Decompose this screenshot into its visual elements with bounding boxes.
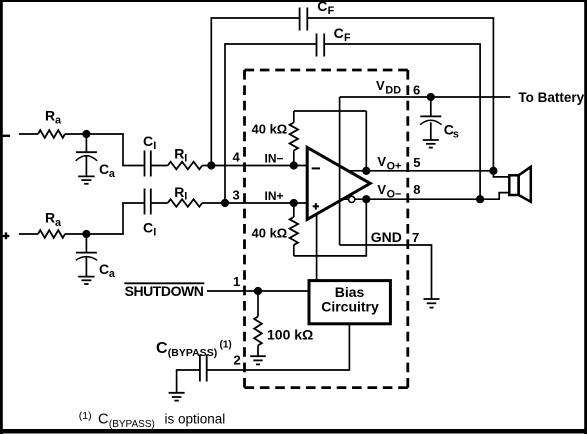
wire: CF2 feedback loop right bbox=[324, 44, 480, 199]
capacitor CF (inner) bbox=[317, 34, 325, 57]
svg-text:is optional: is optional bbox=[165, 411, 226, 426]
svg-text:100 kΩ: 100 kΩ bbox=[267, 326, 313, 342]
input terminal plus sign bbox=[3, 232, 10, 239]
svg-text:DD: DD bbox=[385, 84, 401, 96]
svg-text:40 kΩ: 40 kΩ bbox=[252, 122, 288, 137]
label VO+ bbox=[377, 154, 401, 173]
label C(BYPASS)(1) bbox=[156, 340, 232, 360]
wire: internal vertical B lower to 40k bottom bbox=[294, 199, 367, 256]
node: VO- / CF2 junction bbox=[476, 195, 484, 203]
label VO- bbox=[377, 182, 401, 201]
svg-text:40 kΩ: 40 kΩ bbox=[252, 226, 288, 241]
svg-text:a: a bbox=[55, 115, 62, 127]
svg-text:(BYPASS): (BYPASS) bbox=[109, 419, 155, 430]
resistor 100k bbox=[254, 291, 262, 356]
wire: internal VDD vertical (A) bbox=[339, 97, 341, 245]
svg-text:6: 6 bbox=[413, 83, 420, 98]
label VDD bbox=[376, 78, 401, 96]
svg-text:O−: O− bbox=[387, 189, 402, 201]
IC boundary dashed box bbox=[245, 70, 408, 388]
wire: Ri to op-amp IN- bbox=[202, 165, 306, 167]
wire: bottom input lead bbox=[19, 233, 38, 235]
svg-text:4: 4 bbox=[233, 150, 241, 165]
node: VDD / Cs junction bbox=[427, 93, 435, 101]
wire: op-amp to bias circuitry bbox=[316, 214, 318, 281]
ground (Cs) bbox=[423, 140, 439, 148]
svg-text:(1): (1) bbox=[79, 410, 92, 422]
wire: CF1 feedback loop left bbox=[211, 18, 299, 166]
wire: VDD rail to battery bbox=[340, 96, 511, 98]
node: IN+ / 40k junction bbox=[290, 199, 298, 207]
node: pin4 / CF1 junction bbox=[207, 161, 215, 169]
wire: top input lead bbox=[19, 133, 38, 135]
capacitor C(BYPASS) bbox=[200, 355, 207, 382]
svg-text:F: F bbox=[328, 5, 335, 17]
ground (bypass) bbox=[169, 393, 185, 401]
svg-text:1: 1 bbox=[233, 274, 240, 289]
input terminal minus sign bbox=[3, 135, 10, 137]
svg-text:O+: O+ bbox=[387, 161, 402, 173]
svg-text:C: C bbox=[143, 219, 153, 235]
svg-text:Circuitry: Circuitry bbox=[321, 299, 379, 315]
svg-text:C: C bbox=[98, 411, 108, 427]
speaker bbox=[509, 167, 531, 202]
wire: Ra to Ci corner (bottom) bbox=[65, 203, 145, 234]
op-amp plus marking bbox=[313, 203, 319, 210]
svg-text:Bias: Bias bbox=[335, 284, 365, 300]
svg-text:R: R bbox=[45, 107, 55, 123]
op-amp U1 bbox=[307, 147, 370, 219]
svg-text:R: R bbox=[174, 184, 184, 200]
label SHUTDOWN (overlined) bbox=[124, 283, 204, 299]
label CF (inner) bbox=[334, 25, 351, 44]
node: VO+ / CF1 junction bbox=[489, 167, 497, 175]
bias circuitry box bbox=[309, 281, 390, 324]
svg-text:C: C bbox=[143, 133, 153, 149]
wire: VO+ output bbox=[348, 170, 493, 172]
svg-text:8: 8 bbox=[413, 182, 420, 197]
svg-text:C: C bbox=[334, 25, 344, 41]
svg-text:R: R bbox=[45, 210, 55, 226]
resistor Ri (row 3) bbox=[168, 199, 203, 207]
wire: VO- output bbox=[342, 198, 480, 200]
svg-text:SHUTDOWN: SHUTDOWN bbox=[125, 283, 204, 299]
resistor Ra (top) bbox=[38, 130, 65, 138]
label Ri (row 3) bbox=[174, 184, 187, 203]
node: bottom input junction bbox=[82, 230, 90, 238]
svg-text:(BYPASS): (BYPASS) bbox=[168, 347, 217, 359]
svg-text:C: C bbox=[99, 261, 109, 277]
resistor Ra (bottom) bbox=[38, 230, 65, 238]
svg-text:s: s bbox=[453, 128, 459, 140]
label Cs bbox=[444, 121, 459, 140]
footnote: C(BYPASS) is optional bbox=[79, 410, 225, 430]
svg-text:C: C bbox=[317, 0, 327, 14]
label Ra (bottom) bbox=[45, 210, 62, 229]
svg-text:V: V bbox=[376, 78, 385, 93]
svg-text:R: R bbox=[174, 146, 184, 162]
svg-text:I: I bbox=[184, 152, 187, 164]
svg-text:a: a bbox=[109, 268, 116, 280]
capacitor Ci (row pin 4) bbox=[145, 151, 151, 177]
svg-text:V: V bbox=[377, 182, 386, 197]
wire: bypass cap to ground bbox=[177, 370, 200, 393]
capacitor Ca (top) bbox=[76, 134, 97, 176]
ground (bottom Ca) bbox=[78, 277, 94, 284]
wire: CF2 feedback loop left bbox=[225, 44, 317, 203]
label Ra (top) bbox=[45, 107, 62, 126]
node: IN- / 40k junction bbox=[290, 161, 298, 169]
wire: Ra to Ci corner (top) bbox=[65, 134, 145, 166]
label Ci (bottom) bbox=[143, 219, 156, 238]
capacitor Ci (row pin 3) bbox=[145, 189, 151, 215]
capacitor CF (outer) bbox=[300, 8, 308, 31]
ground (top Ca) bbox=[78, 176, 94, 183]
capacitor Ca (bottom) bbox=[76, 234, 97, 277]
svg-text:2: 2 bbox=[234, 353, 241, 368]
wire: VO+ to speaker bbox=[493, 171, 509, 177]
inverting output bubble bbox=[349, 196, 355, 202]
svg-text:5: 5 bbox=[413, 155, 420, 170]
label Ri (row 4) bbox=[174, 146, 187, 165]
wire: Ri to op-amp IN+ bbox=[202, 202, 306, 204]
resistor 40k (bottom) bbox=[290, 203, 298, 256]
svg-text:IN−: IN− bbox=[265, 152, 284, 166]
op-amp minus marking bbox=[312, 167, 320, 169]
ground (100k) bbox=[250, 356, 266, 364]
wire: internal vertical B upper bbox=[365, 111, 367, 171]
node: VO- internal junction bbox=[362, 195, 370, 203]
svg-text:I: I bbox=[153, 226, 156, 238]
svg-text:(1): (1) bbox=[220, 340, 232, 351]
svg-text:V: V bbox=[377, 154, 386, 169]
ground (GND pin) bbox=[424, 299, 440, 308]
wire: Ci to Ri (row 3) bbox=[151, 202, 168, 204]
label Ci (top) bbox=[143, 133, 156, 152]
wire: CF1 feedback loop right bbox=[307, 18, 493, 171]
svg-text:IN+: IN+ bbox=[265, 189, 284, 203]
svg-text:a: a bbox=[55, 217, 62, 229]
svg-text:GND: GND bbox=[371, 229, 402, 245]
wire: VO- to speaker bbox=[480, 193, 509, 200]
capacitor Cs bbox=[420, 97, 441, 140]
svg-text:7: 7 bbox=[412, 230, 419, 245]
wire: Ci to Ri (row 4) bbox=[151, 165, 168, 167]
svg-text:I: I bbox=[153, 140, 156, 152]
wire: GND rail bbox=[340, 245, 432, 299]
label Ca (top) bbox=[99, 161, 116, 180]
node: shutdown / 100k junction bbox=[254, 287, 262, 295]
node: pin3 / CF2 junction bbox=[221, 199, 229, 207]
wire: bias circuitry to bypass pin 2 bbox=[207, 324, 350, 370]
svg-text:To Battery: To Battery bbox=[518, 90, 584, 105]
svg-text:C: C bbox=[99, 161, 109, 177]
label CF (outer) bbox=[317, 0, 334, 17]
node: VO+ internal junction bbox=[362, 167, 370, 175]
wire: shutdown to bias box bbox=[207, 290, 309, 292]
svg-text:F: F bbox=[344, 32, 351, 44]
svg-text:I: I bbox=[184, 191, 187, 203]
wire: internal top rail bbox=[294, 110, 367, 112]
node: top input junction bbox=[82, 130, 90, 138]
resistor Ri (row 4) bbox=[168, 162, 203, 170]
svg-text:3: 3 bbox=[233, 188, 240, 203]
resistor 40k (top) bbox=[290, 111, 298, 166]
svg-text:C: C bbox=[156, 340, 168, 357]
svg-text:a: a bbox=[109, 168, 116, 180]
label Ca (bottom) bbox=[99, 261, 116, 280]
